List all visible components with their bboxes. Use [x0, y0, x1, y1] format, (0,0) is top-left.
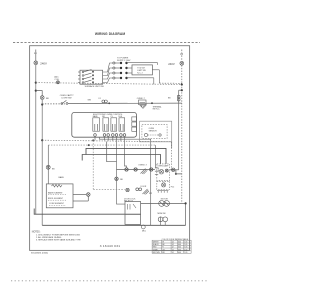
svg-text:BROWN: BROWN — [153, 252, 161, 254]
wire A vertical — [35, 65, 37, 215]
svg-text:BAKE: BAKE — [59, 176, 65, 179]
relay box 1 — [125, 202, 141, 215]
grid right leads — [127, 63, 182, 85]
wire right vertical to bus — [185, 203, 187, 225]
EOC internal relay 2 — [103, 118, 109, 131]
svg-text:SW: SW — [88, 100, 91, 102]
svg-text:MDM SW: MDM SW — [158, 213, 166, 215]
svg-text:BR: BR — [162, 252, 165, 254]
svg-text:105: 105 — [184, 252, 187, 254]
EOC box — [72, 112, 137, 137]
EOC right connector — [132, 117, 137, 121]
svg-text:MOTOR: MOTOR — [161, 199, 169, 201]
title block table — [152, 240, 191, 253]
bus1 y148.2 — [86, 148, 166, 164]
svg-text:OVEN LAMP: OVEN LAMP — [157, 165, 169, 168]
terminal right of lamp box — [170, 169, 179, 171]
svg-text:3 16443 031: 3 16443 031 — [100, 244, 121, 248]
svg-text:BAKE ELEMENT: BAKE ELEMENT — [48, 191, 63, 194]
terminal L2 240V — [180, 61, 184, 65]
door switch — [61, 100, 68, 104]
svg-text:OVEN LT: OVEN LT — [137, 98, 146, 100]
relay box 2 — [125, 214, 141, 224]
svg-text:GRAY: GRAY — [153, 248, 159, 251]
svg-text:MDL: MDL — [142, 231, 146, 233]
terminal C — [46, 165, 50, 169]
svg-text:COIL: COIL — [54, 79, 60, 81]
terminal on x115.5 — [115, 177, 119, 181]
pins col bottom — [157, 191, 169, 193]
border frame — [30, 46, 190, 251]
lamp dashed box1 — [157, 164, 170, 181]
node dot and route to right vertical — [175, 173, 177, 175]
svg-text:BROIL ELEMENT: BROIL ELEMENT — [48, 198, 64, 200]
wire L2 dashed vertical — [181, 50, 183, 62]
dashed neutral bus y84.7 — [36, 83, 182, 85]
svg-text:NOTES:: NOTES: — [32, 232, 41, 234]
EOC bottom terminals — [94, 134, 126, 137]
node dot A-bus1 — [35, 82, 37, 84]
wire C — [47, 145, 49, 184]
lamp holder vertical right — [178, 90, 180, 170]
top fold dashed line — [13, 41, 200, 43]
svg-text:240V: 240V — [168, 62, 175, 66]
terminal L1 240V — [34, 61, 38, 65]
circle on bus B — [141, 225, 145, 229]
svg-text:14: 14 — [172, 252, 174, 254]
hatch row bottom — [143, 189, 149, 194]
svg-text:WIRING DIAGRAM: WIRING DIAGRAM — [95, 32, 125, 36]
svg-text:P12: P12 — [171, 187, 174, 189]
svg-text:12: 12 — [172, 247, 174, 249]
svg-text:SENSOR: SENSOR — [149, 130, 158, 132]
surface switch box — [80, 70, 103, 84]
svg-text:600: 600 — [178, 247, 181, 249]
element terminal right — [73, 194, 86, 196]
wire branch to B — [36, 91, 42, 96]
svg-text:BK: BK — [168, 97, 171, 99]
bottom bus B y225.3 — [42, 224, 185, 226]
svg-text:R: R — [162, 247, 164, 249]
svg-text:COLOR CODE WIRING TABLE: COLOR CODE WIRING TABLE — [162, 238, 189, 241]
node dot dashed2 — [88, 144, 90, 146]
EOC internal relay 1 — [93, 118, 100, 131]
node dot A-91 — [35, 90, 37, 92]
svg-text:BK: BK — [46, 98, 49, 100]
terminal on y189.3 — [126, 188, 129, 191]
svg-text:316443031 (0504): 316443031 (0504) — [31, 253, 48, 255]
terminal grid rows — [113, 62, 120, 79]
svg-text:600: 600 — [178, 252, 181, 254]
wire L1 stub — [35, 50, 37, 61]
hatch component row1 — [141, 169, 148, 175]
circles pair row bottom — [136, 188, 142, 191]
bus2 y154.1 — [82, 155, 160, 164]
oven cavity box — [140, 121, 172, 142]
terminal B — [40, 96, 44, 100]
svg-text:CONV ELEMENT: CONV ELEMENT — [49, 203, 65, 205]
svg-text:SW: SW — [149, 193, 152, 195]
switch contacts — [78, 70, 94, 84]
svg-text:RED: RED — [153, 247, 157, 249]
zigzag element — [52, 185, 63, 188]
wire L2 vertical lower — [181, 65, 183, 203]
wire x106.7 corner — [107, 142, 117, 162]
fuse circles on line — [102, 100, 107, 103]
EOC internal relay 4 — [119, 118, 125, 131]
connector pins col mid — [155, 168, 158, 174]
dashed chassis 2 — [48, 144, 155, 146]
wire B vertical — [41, 100, 43, 226]
fuse on bus — [56, 81, 59, 84]
svg-text:SUPPLY 240V: SUPPLY 240V — [117, 60, 131, 62]
relay box top right — [132, 65, 152, 75]
node dot B-141 — [41, 139, 43, 141]
bottom bus A y214.2 — [34, 209, 125, 215]
lamp row y169.5 — [117, 169, 155, 171]
svg-text:2. ALL WIRES ARE 18 AWG.: 2. ALL WIRES ARE 18 AWG. — [36, 236, 62, 239]
svg-text:N.C. 2: N.C. 2 — [137, 72, 142, 74]
node dot B-104 — [41, 103, 43, 105]
lamp dashed box2 — [157, 181, 170, 189]
svg-text:LIGHT SW: LIGHT SW — [62, 98, 72, 100]
svg-text:BK: BK — [120, 179, 123, 181]
svg-text:SURFACE UNIT SW: SURFACE UNIT SW — [85, 85, 104, 88]
svg-text:F1: F1 — [99, 98, 101, 100]
svg-text:BAKE: BAKE — [93, 115, 99, 118]
bake element assembly box — [46, 184, 73, 208]
svg-text:DOOR: DOOR — [141, 186, 147, 188]
dashed chassis bus y141.6 — [42, 140, 171, 170]
node dot dashed1 — [92, 139, 94, 141]
svg-text:3. REPLACE WIRE WITH SAME SIZE: 3. REPLACE WIRE WITH SAME SIZE AND TYPE — [36, 239, 81, 242]
wire relay to right — [141, 202, 186, 204]
bottom page dotted line — [11, 280, 207, 282]
dashed drop x93.2 — [92, 140, 94, 189]
svg-text:OVEN LT: OVEN LT — [138, 165, 147, 167]
EOC terminal stubs — [95, 132, 125, 135]
dashed bottom bus y189.3 — [93, 188, 124, 190]
EOC internal relay 3 — [111, 118, 117, 131]
svg-text:SW N.C.: SW N.C. — [153, 109, 161, 111]
wire routing under EOC — [95, 137, 155, 225]
svg-text:BK: BK — [52, 168, 55, 170]
leads switch to grid — [103, 63, 113, 83]
svg-text:105: 105 — [184, 247, 187, 249]
oven light line y103.6 — [42, 103, 66, 105]
svg-text:240V: 240V — [40, 61, 47, 65]
EOC relay contacts — [95, 124, 123, 131]
